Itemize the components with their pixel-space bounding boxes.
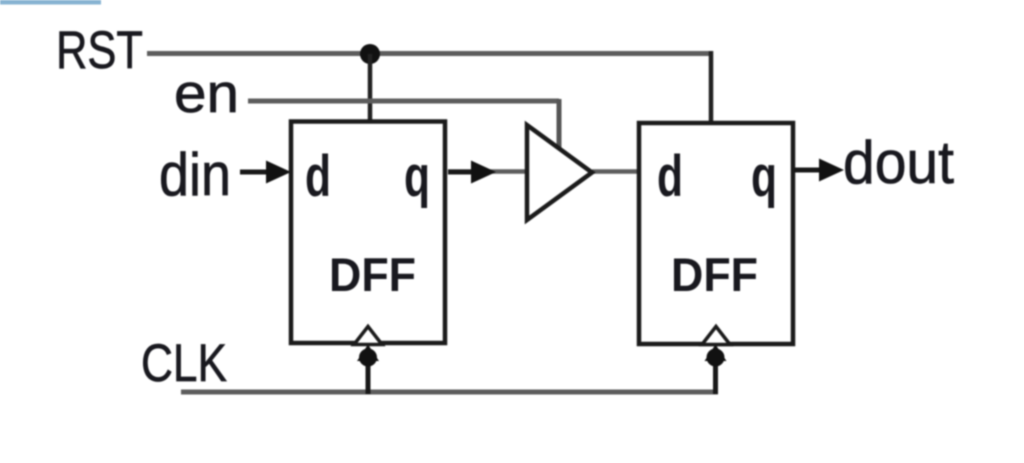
- clock arrowhead U2: [705, 345, 727, 362]
- arrowhead din: [266, 161, 291, 184]
- svg-text:RST: RST: [56, 21, 143, 80]
- svg-text:CLK: CLK: [141, 334, 227, 393]
- svg-text:DFF: DFF: [671, 248, 758, 301]
- wire en vertical drop to buffer enable: [557, 99, 562, 152]
- svg-text:q: q: [751, 144, 777, 209]
- wire CLK horizontal: [181, 390, 718, 395]
- clock ball U1: [359, 349, 377, 367]
- clock caret U2: [702, 327, 730, 345]
- wire U1 q to buffer: [448, 169, 527, 174]
- wire q1 arrow segment: [448, 170, 476, 175]
- wire din to U1 d: [240, 170, 272, 175]
- wire RST vertical drop to U2: [709, 51, 714, 125]
- clock caret U1: [354, 327, 382, 345]
- svg-text:d: d: [305, 144, 331, 209]
- svg-text:q: q: [404, 144, 430, 209]
- wire clock branch to U1: [366, 352, 371, 394]
- wire buffer to U2 d: [592, 169, 639, 174]
- svg-text:d: d: [657, 144, 683, 209]
- clock arrowhead U1: [357, 345, 379, 362]
- wire en horizontal: [248, 99, 559, 104]
- svg-text:din: din: [159, 141, 231, 208]
- svg-text:en: en: [174, 62, 239, 124]
- svg-text:dout: dout: [843, 129, 954, 196]
- wire RST vertical drop to U1: [368, 54, 373, 124]
- wire RST horizontal: [147, 51, 711, 56]
- svg-text:DFF: DFF: [329, 248, 416, 301]
- arrowhead dout: [819, 159, 844, 182]
- arrowhead q1: [471, 161, 496, 184]
- wire clock vertical to U2: [713, 352, 718, 394]
- clock ball U2: [707, 349, 725, 367]
- tri-state buffer: [527, 125, 592, 220]
- junction dot on RST net: [360, 44, 380, 64]
- wire U2 q to dout: [794, 168, 822, 173]
- flip-flop U2 box: [639, 123, 793, 344]
- flip-flop U1 box: [291, 122, 445, 344]
